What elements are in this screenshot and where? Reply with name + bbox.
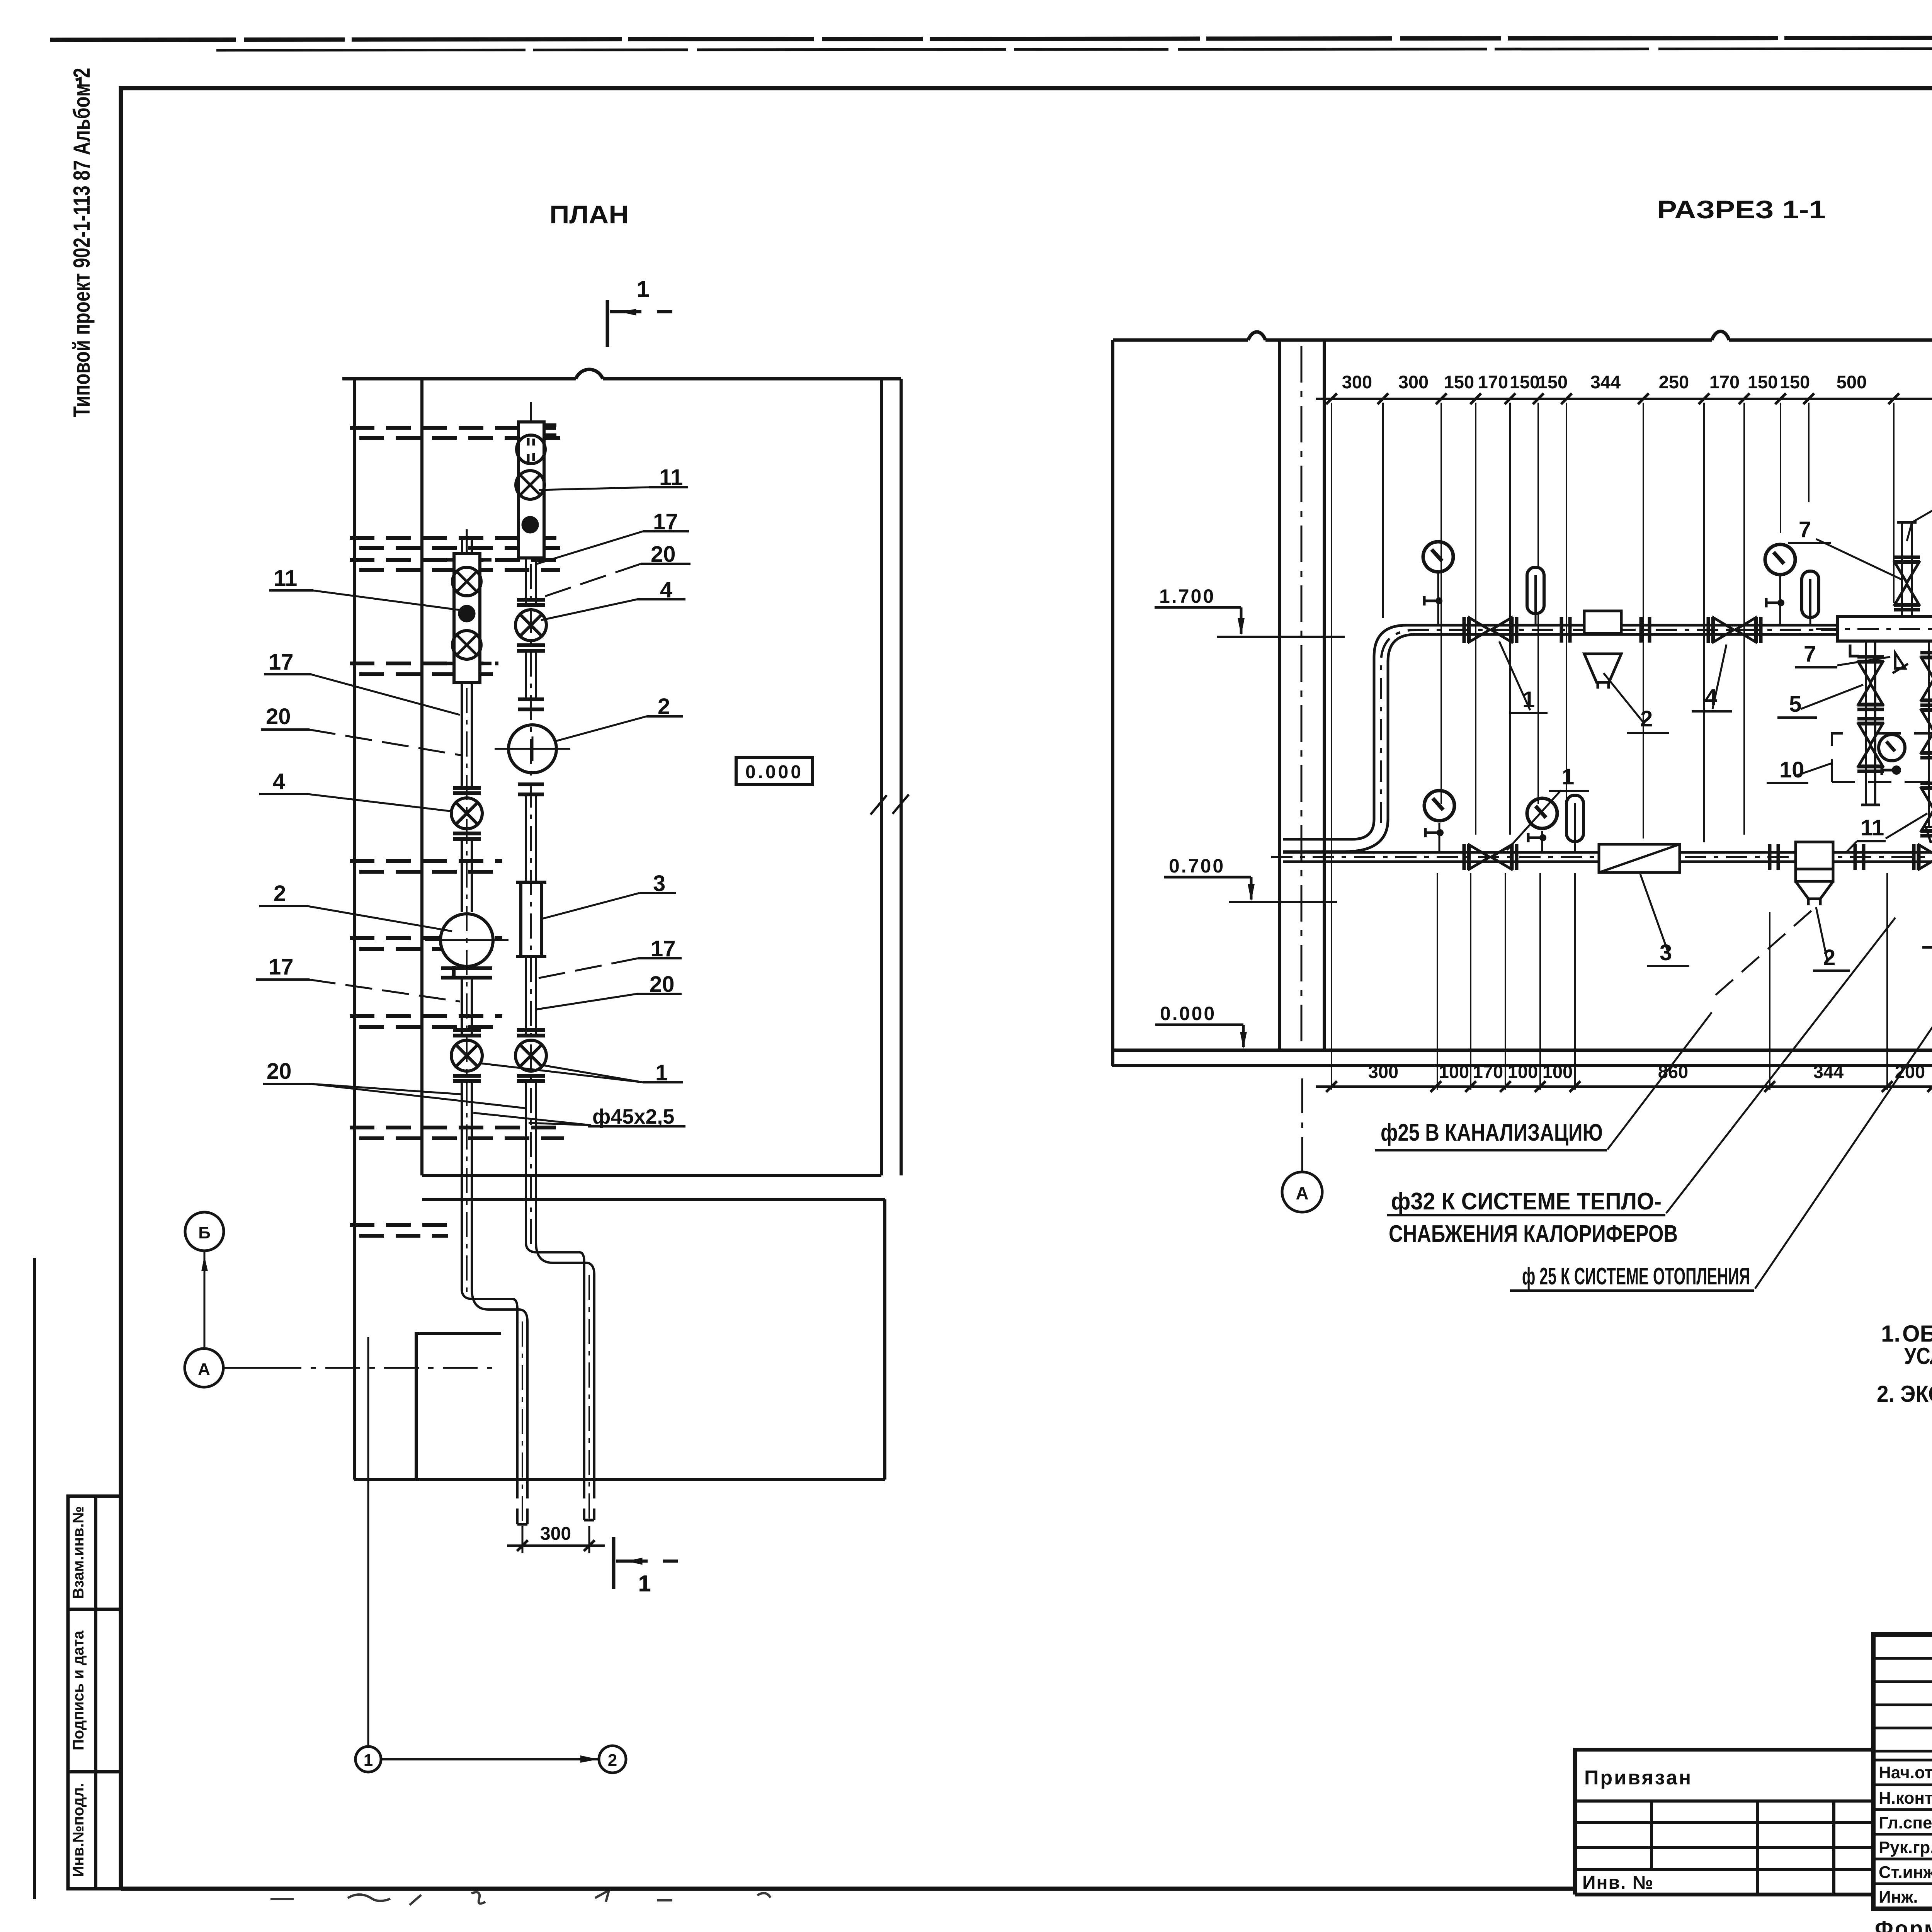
- svg-text:150: 150: [1780, 372, 1810, 392]
- svg-text:ПЛАН: ПЛАН: [549, 200, 629, 229]
- svg-text:0.000: 0.000: [745, 762, 803, 782]
- svg-text:Рук.гр.: Рук.гр.: [1879, 1838, 1932, 1857]
- svg-text:Формат А2: Формат А2: [1875, 1916, 1932, 1932]
- svg-text:Б: Б: [198, 1223, 211, 1242]
- svg-text:1: 1: [637, 277, 649, 302]
- svg-text:170: 170: [1473, 1061, 1503, 1082]
- svg-text:4: 4: [273, 769, 285, 794]
- svg-text:200: 200: [1895, 1061, 1925, 1082]
- svg-text:7: 7: [1799, 517, 1811, 542]
- svg-text:344: 344: [1590, 372, 1621, 392]
- svg-text:Взам.инв.№: Взам.инв.№: [70, 1506, 87, 1599]
- svg-text:150: 150: [1510, 372, 1540, 392]
- svg-text:Инв. №: Инв. №: [1582, 1872, 1654, 1893]
- svg-text:250: 250: [1659, 372, 1689, 392]
- svg-text:11: 11: [1861, 815, 1884, 840]
- svg-text:300: 300: [1368, 1061, 1398, 1082]
- svg-text:1: 1: [638, 1571, 651, 1596]
- svg-text:Подпись и дата: Подпись и дата: [70, 1630, 87, 1750]
- svg-text:2: 2: [608, 1751, 617, 1770]
- svg-text:А: А: [1296, 1183, 1308, 1203]
- svg-text:2: 2: [1640, 706, 1653, 731]
- svg-text:300: 300: [1398, 372, 1429, 392]
- svg-text:170: 170: [1709, 372, 1740, 392]
- svg-text:2: 2: [274, 881, 286, 906]
- svg-text:100: 100: [1508, 1061, 1538, 1082]
- svg-text:344: 344: [1813, 1061, 1844, 1082]
- svg-text:ОБРАТНЫЙ ТРУБОПРОВОД В ПЛАНЕ О: ОБРАТНЫЙ ТРУБОПРОВОД В ПЛАНЕ ОТНЕСЕН ОТ …: [1902, 1321, 1932, 1347]
- svg-text:А: А: [198, 1360, 210, 1379]
- svg-text:2. ЭКСПЛИКАЦИЮ НА ТЕПЛОВОЙ ПУН: 2. ЭКСПЛИКАЦИЮ НА ТЕПЛОВОЙ ПУНКТ СМ. ЛИС…: [1877, 1381, 1932, 1407]
- svg-text:ф45х2,5: ф45х2,5: [592, 1105, 674, 1128]
- svg-text:РАЗРЕЗ 1-1: РАЗРЕЗ 1-1: [1657, 195, 1826, 224]
- svg-text:Н.контр: Н.контр: [1879, 1789, 1932, 1808]
- svg-text:20: 20: [266, 704, 291, 729]
- svg-text:17: 17: [269, 954, 294, 980]
- svg-text:300: 300: [540, 1524, 571, 1544]
- svg-text:10: 10: [1779, 757, 1804, 782]
- svg-text:7: 7: [1804, 641, 1816, 667]
- svg-text:Нач.отд: Нач.отд: [1879, 1763, 1932, 1782]
- svg-text:Привязан: Привязан: [1584, 1767, 1692, 1789]
- svg-text:УСЛОВНО.: УСЛОВНО.: [1904, 1343, 1932, 1369]
- svg-text:300: 300: [1342, 372, 1372, 392]
- svg-text:0.000: 0.000: [1160, 1003, 1216, 1024]
- svg-text:500: 500: [1837, 372, 1867, 392]
- svg-text:Инж.: Инж.: [1879, 1888, 1918, 1906]
- svg-text:150: 150: [1748, 372, 1778, 392]
- svg-text:11: 11: [274, 566, 297, 591]
- svg-text:Гл.спец: Гл.спец: [1879, 1813, 1932, 1832]
- svg-text:СНАБЖЕНИЯ КАЛОРИФЕРОВ: СНАБЖЕНИЯ КАЛОРИФЕРОВ: [1389, 1221, 1678, 1247]
- svg-text:20: 20: [267, 1059, 292, 1084]
- svg-text:Типовой проект 902-1-113 87 Ал: Типовой проект 902-1-113 87 Альбом 2: [69, 68, 95, 418]
- svg-text:150: 150: [1537, 372, 1568, 392]
- svg-text:1.700: 1.700: [1159, 585, 1215, 607]
- svg-text:ф 25 К СИСТЕМЕ ОТОПЛЕНИЯ: ф 25 К СИСТЕМЕ ОТОПЛЕНИЯ: [1522, 1263, 1750, 1290]
- svg-text:ф25 В КАНАЛИЗАЦИЮ: ф25 В КАНАЛИЗАЦИЮ: [1381, 1119, 1603, 1146]
- svg-text:1: 1: [364, 1751, 373, 1770]
- svg-text:170: 170: [1478, 372, 1508, 392]
- svg-text:17: 17: [269, 650, 294, 675]
- svg-text:Инв.№подл.: Инв.№подл.: [70, 1783, 87, 1877]
- svg-text:1: 1: [1562, 764, 1574, 789]
- svg-text:150: 150: [1444, 372, 1474, 392]
- svg-text:5: 5: [1789, 692, 1801, 717]
- svg-text:1.: 1.: [1881, 1321, 1900, 1347]
- svg-text:100: 100: [1439, 1061, 1469, 1082]
- svg-text:0.700: 0.700: [1169, 855, 1225, 877]
- svg-text:ф32 К СИСТЕМЕ ТЕПЛО-: ф32 К СИСТЕМЕ ТЕПЛО-: [1391, 1188, 1662, 1215]
- svg-text:Ст.инж: Ст.инж: [1879, 1863, 1932, 1882]
- svg-text:100: 100: [1543, 1061, 1573, 1082]
